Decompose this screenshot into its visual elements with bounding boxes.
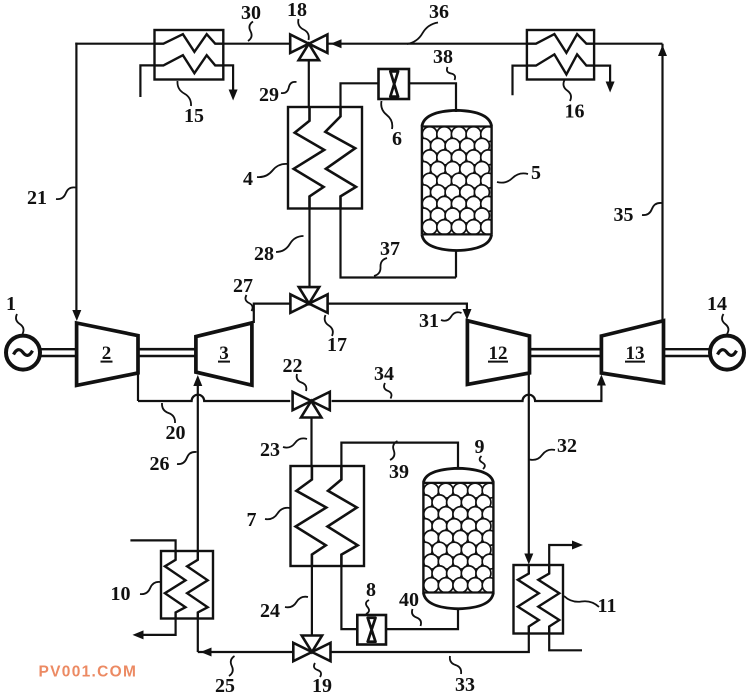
svg-text:24: 24 (260, 600, 280, 622)
HX15 outlet arrow (down) (229, 90, 238, 101)
label 2 (101, 343, 113, 364)
svg-text:31: 31 (419, 310, 439, 332)
label 1 (6, 293, 24, 334)
label 16 (563, 80, 584, 123)
arrow into turbine 2 inlet (down) (72, 310, 81, 321)
svg-text:21: 21 (27, 187, 47, 209)
label 36 (407, 1, 449, 44)
shaft turbine 13 to generator 14 (664, 349, 711, 356)
label 9 (475, 436, 485, 469)
heat exchanger 7 body (291, 466, 365, 566)
arrow into turbine 3 (up) (193, 375, 202, 386)
label 18 (287, 0, 309, 40)
svg-text:6: 6 (392, 128, 402, 150)
label 34 (374, 363, 394, 399)
HX4 left coil (294, 107, 325, 209)
svg-text:17: 17 (327, 334, 347, 356)
wire line 26 lower (HX10 to junction) (197, 619, 199, 653)
generator 14 tilde (718, 350, 737, 356)
svg-text:4: 4 (243, 168, 253, 190)
label 32 (530, 435, 578, 460)
wire HX4 to device 6 (341, 83, 379, 107)
label 10 (111, 582, 161, 605)
generator 14 body (710, 336, 744, 370)
svg-text:10: 10 (111, 583, 131, 605)
HX16 coolant inlet stub (513, 66, 527, 96)
wire line 28 (HX4 to valve 17) (308, 209, 310, 288)
generator 1 tilde (14, 350, 33, 356)
label 22 (283, 355, 307, 391)
device 6 hourglass (390, 71, 398, 96)
arrow into HX11 (down) (524, 554, 533, 565)
label 25 (215, 656, 235, 697)
three-way valve 17 (290, 287, 327, 313)
HX11 coolant outlet (549, 545, 573, 565)
wire line 39 (HX7 to vessel 9) (341, 443, 458, 469)
svg-text:36: 36 (429, 1, 449, 23)
packed-bed vessel 5 (416, 110, 496, 250)
wire line 23 (valve 22 to HX7) (310, 418, 312, 467)
heat exchanger 11 body (514, 565, 564, 634)
svg-text:1: 1 (6, 293, 16, 315)
label 13 (625, 343, 645, 364)
arrow into turbine 12 inlet (down) (463, 309, 472, 320)
svg-text:5: 5 (531, 162, 541, 184)
arrow on line 25 (left) (201, 648, 212, 657)
HX15 bottom coil (155, 55, 224, 73)
wire valve 17 to turbine 3 inlet (254, 304, 291, 323)
wire line 32 (turbine 12 outlet down to HX11) (528, 373, 530, 556)
heat exchanger 15 body (155, 30, 224, 80)
label 21 (27, 187, 76, 209)
three-way valve 18 (290, 35, 327, 61)
generator 1 body (6, 336, 40, 370)
wire line 35 (right vertical down to turbine 13) (661, 44, 663, 322)
svg-text:14: 14 (707, 293, 727, 315)
label 20 (162, 403, 186, 444)
svg-text:29: 29 (259, 84, 279, 106)
svg-text:15: 15 (184, 105, 204, 127)
wire line 25 (valve 19 to junction) (198, 651, 293, 653)
label 14 (707, 293, 728, 334)
HX10 coolant inlet stub (130, 540, 175, 551)
shaft generator 1 to turbine 2 (40, 349, 77, 356)
HX11 right coil (538, 565, 559, 634)
wire line 30 (valve 18 to HX15 to corner) (75, 43, 154, 45)
turbine 12 body (467, 321, 529, 385)
label 17 (325, 315, 347, 356)
label 3 (218, 343, 230, 364)
label 5 (497, 162, 541, 184)
wire line 34 (valve 22 to turbine 13) with hop (332, 383, 602, 401)
label 33 (450, 656, 475, 696)
fan device 8 body (357, 615, 386, 645)
label 40 (399, 589, 421, 626)
shaft turbine 2 to turbine 3 (138, 349, 196, 356)
HX4 right coil (325, 107, 356, 209)
svg-text:30: 30 (241, 2, 261, 24)
wire vessel 5 outlet (455, 250, 457, 278)
turbine 13 body (601, 321, 663, 383)
wire line 21 (down-left vertical) (75, 43, 77, 313)
svg-text:26: 26 (150, 453, 170, 475)
wire line 31 (valve 17 to turbine 12) (328, 304, 467, 312)
label 12 (488, 343, 508, 364)
HX10 left coil (165, 551, 186, 619)
label 29 (259, 82, 297, 106)
heat exchanger 10 body (161, 551, 213, 619)
HX10 outlet arrow (left) (133, 630, 144, 639)
svg-text:23: 23 (260, 439, 280, 461)
svg-text:8: 8 (366, 579, 376, 601)
svg-text:18: 18 (287, 0, 307, 21)
HX15 coolant outlet (223, 65, 233, 91)
wire segment HX15 to valve 18 (223, 43, 290, 45)
label 26 (150, 452, 197, 475)
label 8 (366, 579, 376, 614)
svg-text:25: 25 (215, 675, 235, 697)
device 8 hourglass (368, 618, 376, 642)
HX7 right coil (328, 466, 358, 566)
label 15 (177, 81, 204, 127)
svg-text:11: 11 (598, 595, 617, 617)
HX10 right coil (187, 551, 208, 619)
packed-bed vessel 9 (417, 468, 497, 609)
HX15 coolant inlet stub (140, 65, 154, 97)
wire line 26 (vertical to turbine 3) (197, 383, 199, 551)
watermark PV001.COM (39, 664, 138, 681)
svg-text:20: 20 (166, 422, 186, 444)
wire line 24 (HX7 to valve 19) (311, 566, 313, 636)
wire line 40 (device 8 to vessel 9) (386, 609, 458, 630)
turbine 2 body (77, 323, 138, 385)
svg-text:33: 33 (455, 674, 475, 696)
shaft turbine 12 to turbine 13 (530, 349, 602, 356)
HX16 top coil (527, 34, 594, 53)
HX16 coolant outlet (594, 66, 610, 83)
wire line 38 (device 6 to vessel 5) (409, 83, 456, 112)
svg-text:39: 39 (389, 461, 409, 483)
HX15 top coil (155, 34, 224, 52)
label 7 (247, 508, 291, 531)
HX16 bottom coil (527, 54, 594, 74)
wire line 20 (turbine 2 outlet down) (137, 371, 139, 401)
label 31 (419, 310, 462, 332)
label 4 (243, 164, 288, 190)
arrow line 35 top (up, at junction) (658, 45, 667, 56)
label 39 (389, 441, 409, 483)
wire line 36 (right of valve 18 to junction with line 35) (327, 43, 662, 45)
svg-text:16: 16 (565, 101, 585, 123)
svg-text:22: 22 (283, 355, 303, 377)
svg-text:PV001.COM: PV001.COM (39, 664, 138, 681)
HX11 left coil (518, 565, 539, 634)
wire line 37 (vessel 5 to HX4) (341, 209, 457, 278)
HX7 left coil (296, 466, 327, 566)
turbine 3 body (196, 323, 252, 385)
wire line 33 (valve 19 to HX11) (331, 634, 529, 653)
svg-text:32: 32 (557, 435, 577, 457)
arrow into valve 18 (line 36, pointing left) (331, 39, 342, 48)
svg-text:35: 35 (614, 204, 634, 226)
svg-text:34: 34 (374, 363, 394, 385)
arrow into turbine 13 (up) (597, 375, 606, 386)
wire line 29 (valve 18 to HX4) (308, 60, 310, 108)
wire HX7 to device 8 (341, 566, 357, 629)
svg-text:27: 27 (233, 275, 253, 297)
label 19 (312, 663, 332, 697)
svg-text:28: 28 (254, 243, 274, 265)
label 27 (233, 275, 253, 311)
svg-text:40: 40 (399, 589, 419, 611)
three-way valve 22 (293, 392, 330, 418)
label 37 (374, 238, 400, 276)
HX10 coolant outlet (142, 619, 176, 635)
svg-text:7: 7 (247, 509, 257, 531)
heat exchanger 16 body (527, 30, 594, 80)
svg-text:38: 38 (433, 46, 453, 68)
svg-text:37: 37 (380, 238, 400, 260)
label 6 (381, 101, 402, 150)
HX16 outlet arrow (down) (606, 82, 615, 93)
fan device 6 body (379, 69, 410, 99)
HX11 coolant inlet stub (549, 634, 582, 651)
label 24 (260, 597, 308, 622)
svg-text:19: 19 (312, 675, 332, 697)
HX11 outlet arrow (right) (572, 541, 583, 550)
label 11 (564, 595, 616, 617)
label 38 (433, 46, 455, 80)
label 23 (260, 438, 307, 461)
heat exchanger 4 body (288, 107, 362, 209)
three-way valve 19 (293, 636, 330, 662)
wire line 20 horizontal with hop (138, 395, 290, 401)
label 35 (614, 203, 662, 226)
svg-text:9: 9 (475, 436, 485, 458)
label 30 (241, 2, 261, 41)
label 28 (254, 236, 304, 265)
